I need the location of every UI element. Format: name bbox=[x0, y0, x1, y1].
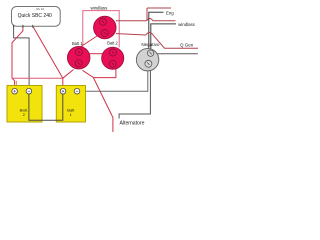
wire: charger positive 1 down left side bbox=[12, 26, 23, 78]
charger U1 Quick SBC 240 bbox=[12, 7, 61, 27]
battery B2 bbox=[7, 86, 42, 123]
wire: negative bus to alternator minus bbox=[119, 67, 150, 119]
charger terminal plus 1 bbox=[22, 25, 24, 28]
wire: positive drop to battery B1 plus bbox=[62, 78, 64, 88]
wire: second positive strand into battery B2 plus bbox=[15, 81, 17, 88]
wire: windlass black line down to negative bus bbox=[151, 24, 176, 55]
wire: switch S2 bottom drop to diagonal junction bbox=[93, 68, 116, 77]
wire: windlass red line with hop bbox=[116, 19, 176, 21]
wire: series link battery B2 minus to battery B1 plus bbox=[29, 94, 63, 120]
wire: switch S1 bottom diagonal to alternator positive bbox=[83, 70, 113, 132]
wire: charger positive 2 diagonal to B1 plus junction bbox=[33, 26, 63, 78]
wire: battery B1 minus to negative bus bbox=[77, 67, 148, 92]
battery B1 terminal plus bbox=[60, 88, 66, 94]
svg-text:Ch- 13: Ch- 13 bbox=[36, 7, 44, 11]
svg-text:windlass: windlass bbox=[178, 22, 194, 27]
wire: switch S1 bottom-left diagonal to B1 plus junction bbox=[63, 70, 74, 79]
wire: red link between switch S1 and switch S2 bbox=[90, 53, 103, 55]
switch S2 Batt 2 bbox=[102, 47, 124, 69]
svg-text:Quick SBC 240: Quick SBC 240 bbox=[18, 13, 52, 19]
svg-text:Eng: Eng bbox=[166, 10, 174, 15]
wire: positive drop to battery B2 plus bbox=[12, 78, 15, 88]
wire: Eng black line down to negative bus bbox=[149, 12, 164, 54]
svg-text:windlass: windlass bbox=[90, 5, 108, 10]
svg-text:Q Gen: Q Gen bbox=[180, 43, 194, 48]
wire: charger negative to battery B2 minus bbox=[14, 26, 30, 88]
wire: Q Gen red line from breaker with hop bbox=[116, 32, 198, 48]
charger terminal minus bbox=[13, 25, 15, 28]
battery B1 bbox=[56, 86, 85, 123]
breaker windlass CB1 bbox=[94, 16, 116, 38]
svg-text:Batt 2: Batt 2 bbox=[107, 41, 118, 46]
switch S1 Batt 1 bbox=[68, 47, 90, 69]
wire: windlass breaker bottom to switch S1 top bbox=[80, 35, 99, 48]
svg-text:Negativo: Negativo bbox=[141, 42, 160, 47]
svg-text:Alternatore: Alternatore bbox=[120, 120, 145, 126]
wire: positive branch across to battery B1 plus bbox=[12, 77, 63, 79]
wire: Eng red jog and line bbox=[147, 8, 171, 21]
wire: pale positive loop over breaker to both switches bbox=[83, 11, 119, 48]
charger terminal plus 2 bbox=[32, 25, 34, 28]
battery B1 terminal minus bbox=[74, 88, 80, 94]
battery B2 terminal minus bbox=[26, 88, 32, 94]
wire: Q Gen gray line from bus bbox=[154, 53, 198, 55]
battery B2 terminal plus bbox=[12, 88, 18, 94]
svg-text:Batt 1: Batt 1 bbox=[72, 41, 83, 46]
negative bus bbox=[136, 49, 158, 71]
